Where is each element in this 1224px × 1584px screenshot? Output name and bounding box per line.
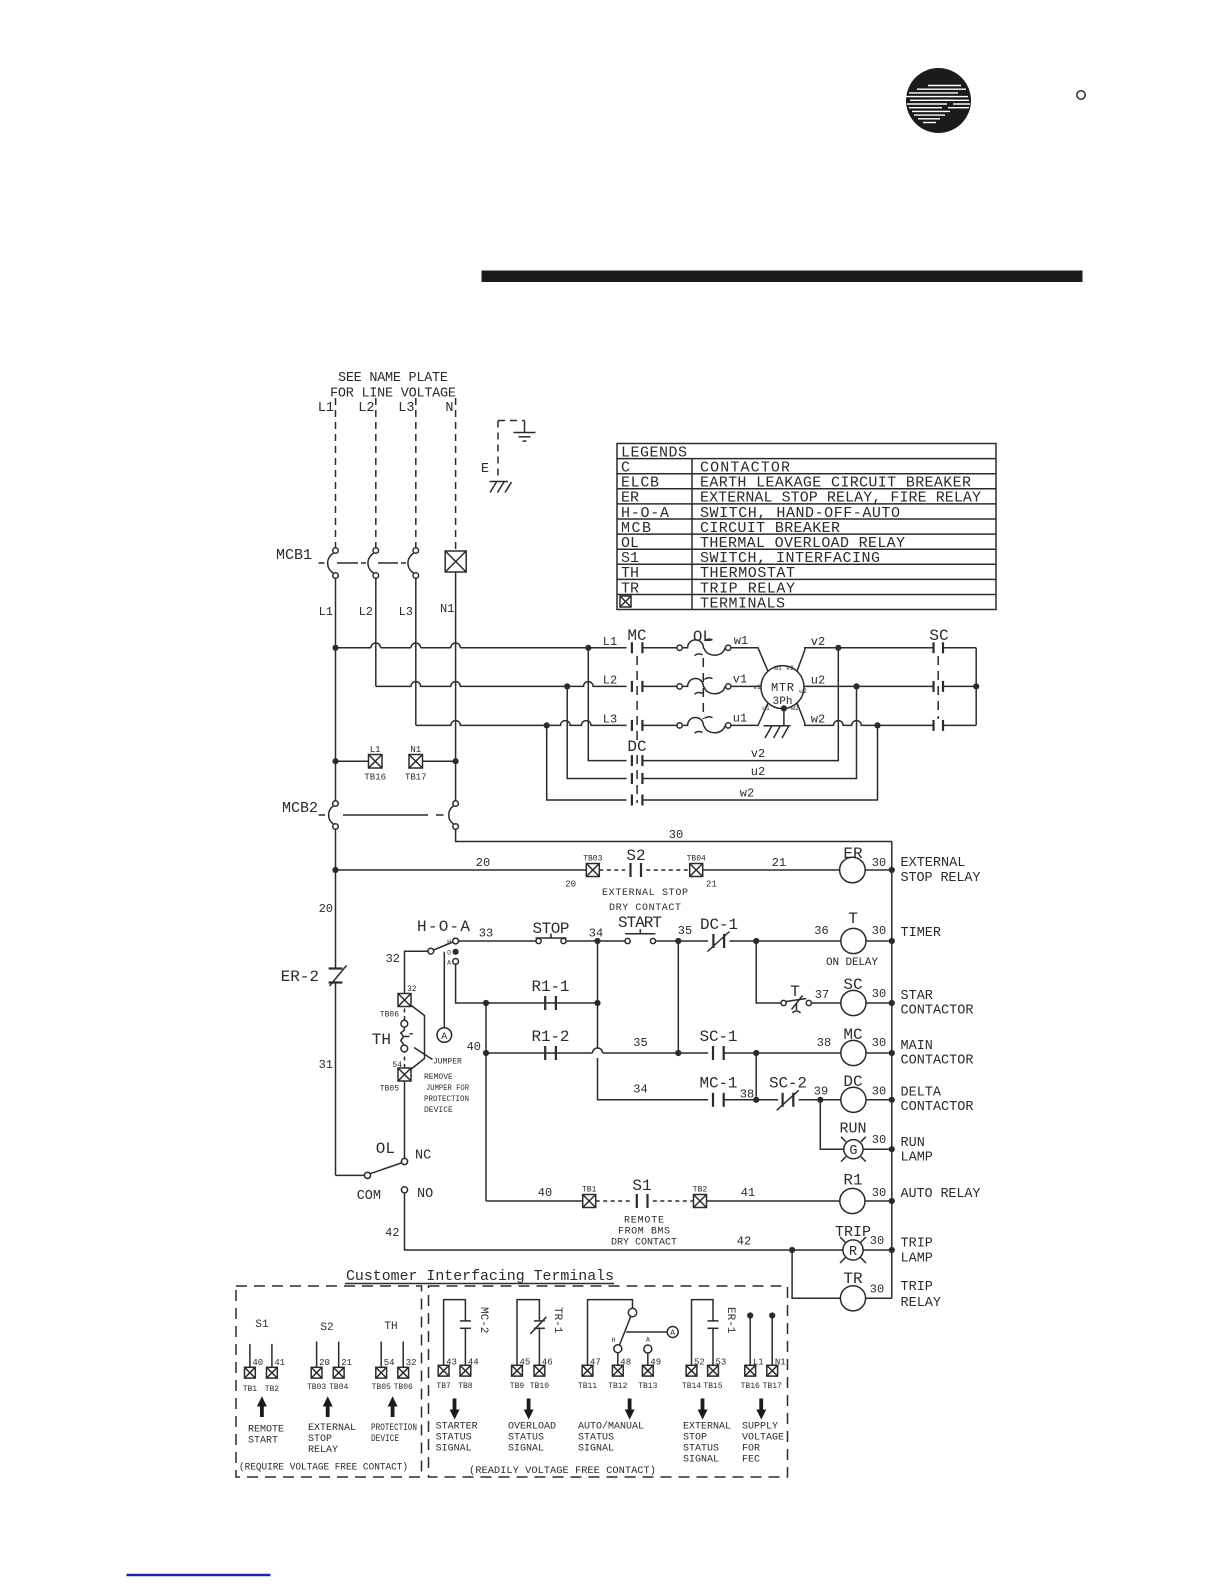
contactor SC mechanical tie (dashed) bbox=[937, 656, 939, 719]
junction L1 row start bbox=[332, 645, 338, 651]
svg-text:38: 38 bbox=[817, 1036, 831, 1050]
wire A position to rung R1-1 bbox=[456, 964, 486, 1003]
junction 40 bbox=[483, 1050, 489, 1056]
breaker MCB2 pole left bbox=[329, 801, 339, 830]
wire TR branch bbox=[792, 1250, 840, 1298]
contact R1-2 bbox=[545, 1046, 556, 1060]
wire N incoming (dashed) bbox=[455, 398, 457, 551]
wire TB05 to thermostat (dashed) bbox=[404, 1053, 406, 1069]
svg-text:v2: v2 bbox=[751, 747, 765, 761]
svg-text:TB10: TB10 bbox=[530, 1382, 549, 1391]
terminal TB2 (customer) bbox=[265, 1367, 280, 1394]
wire OL NO to trip rung 42 bbox=[405, 1193, 790, 1250]
contactor coil MC bbox=[841, 1040, 866, 1065]
svg-text:TR-1: TR-1 bbox=[551, 1307, 563, 1334]
wires S1 group bbox=[250, 1344, 272, 1367]
wire motor v2 to L1 row extension bbox=[797, 648, 933, 671]
junction 35 vertical/R1-2 bbox=[675, 1050, 681, 1056]
svg-text:AUTO RELAY: AUTO RELAY bbox=[901, 1187, 981, 1202]
lamp RUN (G) bbox=[841, 1137, 866, 1162]
svg-text:TB13: TB13 bbox=[638, 1382, 657, 1391]
svg-text:TRIP: TRIP bbox=[901, 1280, 933, 1295]
breaker MCB2 pole right bbox=[449, 801, 459, 830]
relay coil ER bbox=[840, 857, 866, 883]
svg-text:30: 30 bbox=[872, 987, 886, 1001]
svg-text:STOP: STOP bbox=[308, 1434, 332, 1445]
terminal TB11 bbox=[578, 1365, 597, 1391]
legends table column divider bbox=[691, 459, 693, 610]
switch S2 contact bbox=[631, 863, 642, 877]
arrow down (starter status) bbox=[450, 1399, 460, 1420]
svg-text:SC: SC bbox=[843, 976, 862, 994]
junction 20 tap bbox=[332, 867, 338, 873]
junction T rung tap bbox=[753, 938, 759, 944]
svg-text:L3: L3 bbox=[399, 605, 413, 619]
svg-text:E: E bbox=[481, 462, 489, 477]
wire ER rung 20 bbox=[336, 869, 587, 871]
junction L3/w2 tap bbox=[544, 722, 550, 728]
svg-text:54: 54 bbox=[392, 1061, 402, 1070]
svg-text:38: 38 bbox=[740, 1088, 754, 1102]
svg-text:R: R bbox=[849, 1245, 857, 1260]
svg-text:SIGNAL: SIGNAL bbox=[578, 1444, 614, 1455]
contact MC-1 bbox=[713, 1093, 724, 1107]
svg-text:TB1: TB1 bbox=[243, 1385, 258, 1394]
svg-text:STOP: STOP bbox=[683, 1433, 707, 1444]
wire vertical 35 (timer row to R1-2) bbox=[677, 941, 679, 1053]
svg-text:N1: N1 bbox=[440, 602, 454, 616]
breaker MCB2 mechanical tie bbox=[319, 814, 444, 816]
svg-text:CONTACTOR: CONTACTOR bbox=[901, 1054, 974, 1069]
terminal N1 fuse box bbox=[445, 551, 466, 572]
svg-text:TH: TH bbox=[384, 1321, 397, 1333]
svg-text:N1: N1 bbox=[410, 745, 421, 755]
contactor DC pole u2 bbox=[632, 773, 643, 784]
svg-text:41: 41 bbox=[741, 1186, 755, 1200]
wire START to DC-1 bbox=[656, 940, 709, 942]
terminal TB17 (customer) bbox=[763, 1365, 782, 1391]
timer coil T bbox=[841, 928, 866, 953]
junction supply L1 bbox=[747, 1312, 753, 1318]
svg-text:u2: u2 bbox=[811, 674, 825, 688]
svg-text:MCB2: MCB2 bbox=[282, 800, 318, 817]
overload relay OL mechanical tie (dashed) bbox=[702, 658, 704, 719]
wire L3 power row bbox=[416, 721, 627, 726]
svg-text:20: 20 bbox=[319, 1358, 330, 1368]
wire L2 power row bbox=[376, 682, 627, 687]
wire L2 vertical bbox=[375, 578, 377, 686]
switch H-O-A O terminal (engaged dot) bbox=[453, 949, 459, 955]
svg-text:SC-1: SC-1 bbox=[700, 1028, 738, 1046]
svg-text:LAMP: LAMP bbox=[901, 1151, 933, 1166]
wire S1 to TB2 (dashed) bbox=[653, 1200, 694, 1202]
svg-text:ER: ER bbox=[843, 845, 863, 863]
wires S2 group bbox=[317, 1342, 339, 1368]
svg-text:41: 41 bbox=[274, 1358, 285, 1368]
svg-text:TERMINALS: TERMINALS bbox=[700, 595, 785, 612]
svg-text:30: 30 bbox=[872, 1036, 886, 1050]
svg-text:H-O-A: H-O-A bbox=[417, 918, 470, 936]
switch H-O-A A terminal bbox=[453, 959, 459, 965]
wire motor w2 row to SC bbox=[797, 703, 933, 725]
svg-text:FOR LINE VOLTAGE: FOR LINE VOLTAGE bbox=[330, 387, 456, 402]
svg-text:SEE NAME PLATE: SEE NAME PLATE bbox=[338, 371, 448, 386]
terminal TB1 bbox=[582, 1186, 597, 1208]
terminal TB12 bbox=[608, 1365, 627, 1391]
wire N1 vertical bbox=[455, 572, 457, 801]
svg-text:32: 32 bbox=[386, 952, 400, 966]
terminal TB13 bbox=[638, 1365, 657, 1391]
wire MC to OL row L1 bbox=[642, 647, 676, 649]
wire TB04 to ER coil bbox=[703, 869, 840, 871]
svg-text:RELAY: RELAY bbox=[308, 1445, 338, 1456]
svg-text:S1: S1 bbox=[632, 1177, 651, 1195]
wire delta rung 34 bbox=[629, 1099, 709, 1101]
svg-text:S2: S2 bbox=[320, 1322, 333, 1334]
wire SC star point bbox=[943, 648, 976, 726]
junction ER/bus bbox=[889, 867, 895, 873]
svg-text:RUN: RUN bbox=[901, 1136, 925, 1151]
terminal TB16 (customer) bbox=[741, 1365, 760, 1391]
svg-text:20: 20 bbox=[319, 902, 333, 916]
contactor DC mechanical tie (dashed) bbox=[636, 755, 638, 803]
svg-text:L1: L1 bbox=[318, 401, 334, 416]
svg-text:TB7: TB7 bbox=[436, 1382, 451, 1391]
svg-text:COM: COM bbox=[357, 1189, 381, 1204]
wire MC coil to bus bbox=[866, 1052, 892, 1054]
wire SC coil to bus bbox=[866, 1002, 892, 1004]
svg-text:A: A bbox=[670, 1329, 675, 1338]
contact TR-1 (overload status, NC) bbox=[517, 1300, 546, 1366]
svg-text:MC-2: MC-2 bbox=[477, 1307, 489, 1333]
wire left control bus from MCB2 bbox=[335, 829, 337, 968]
svg-text:SC-2: SC-2 bbox=[769, 1075, 807, 1093]
svg-text:30: 30 bbox=[870, 1283, 884, 1297]
wire MC to OL row L3 bbox=[642, 724, 676, 726]
contact SC-1 bbox=[713, 1046, 724, 1060]
wire DC coil to bus bbox=[866, 1099, 892, 1101]
svg-text:OL: OL bbox=[376, 1140, 395, 1158]
svg-text:v1: v1 bbox=[753, 684, 761, 691]
svg-text:TB17: TB17 bbox=[763, 1382, 782, 1391]
svg-text:R1-2: R1-2 bbox=[532, 1028, 570, 1046]
junction u2 tap bbox=[853, 683, 859, 689]
wire RUN lamp to bus bbox=[863, 1148, 892, 1150]
contact MC-2 (starter status) bbox=[444, 1300, 471, 1366]
wire T coil to bus bbox=[866, 940, 892, 942]
svg-text:40: 40 bbox=[467, 1040, 481, 1054]
svg-text:LAMP: LAMP bbox=[901, 1252, 933, 1267]
arrow up (remote start) bbox=[257, 1396, 267, 1417]
wire TR coil to bus bbox=[866, 1297, 892, 1299]
svg-text:TB06: TB06 bbox=[380, 1011, 399, 1020]
junction T/bus bbox=[889, 938, 895, 944]
wire left bus 31 bbox=[335, 983, 337, 1176]
wire ER coil to bus bbox=[865, 869, 892, 871]
company logo globe bbox=[906, 68, 971, 133]
overload relay OL heater L2 bbox=[677, 678, 731, 694]
wire thermostat to TB06 (dashed) bbox=[404, 1006, 406, 1020]
svg-text:T: T bbox=[790, 983, 800, 1001]
svg-text:TB2: TB2 bbox=[693, 1186, 708, 1195]
svg-text:30: 30 bbox=[872, 1186, 886, 1200]
terminal TB10 bbox=[530, 1365, 549, 1391]
terminal TB15 bbox=[703, 1365, 722, 1391]
svg-text:R1-1: R1-1 bbox=[532, 978, 570, 996]
wire O position to ammeter A bbox=[443, 952, 445, 1028]
earth conductor EI (dashed drop) bbox=[497, 421, 499, 480]
svg-text:L3: L3 bbox=[398, 401, 414, 416]
svg-text:START: START bbox=[248, 1436, 278, 1447]
wire TB1 to S1 (dashed) bbox=[596, 1200, 632, 1202]
svg-text:ER-2: ER-2 bbox=[281, 968, 319, 986]
svg-text:MTR: MTR bbox=[771, 681, 794, 695]
lamp TRIP (R) bbox=[840, 1237, 866, 1263]
contactor coil SC bbox=[841, 990, 866, 1015]
svg-text:20: 20 bbox=[476, 856, 490, 870]
svg-text:30: 30 bbox=[872, 924, 886, 938]
breaker MCB1 pole L2 bbox=[368, 548, 379, 579]
wire S2 to TB04 (dashed) bbox=[646, 869, 689, 871]
terminal TB03 bbox=[565, 855, 602, 890]
svg-text:PROTECTION: PROTECTION bbox=[371, 1423, 417, 1434]
svg-text:TB16: TB16 bbox=[364, 773, 386, 783]
wire motor u2 row to SC bbox=[804, 685, 934, 687]
overload relay OL heater L1 bbox=[677, 639, 731, 655]
contact T (timed NC) bbox=[781, 996, 811, 1014]
svg-text:31: 31 bbox=[319, 1058, 333, 1072]
arrow up (external stop relay) bbox=[323, 1396, 333, 1417]
footer blue rule bbox=[127, 1574, 271, 1576]
wire T rung down to SC rung bbox=[756, 941, 781, 1003]
svg-text:H: H bbox=[612, 1337, 616, 1344]
junction w2 tap bbox=[874, 722, 880, 728]
wires supply voltage group bbox=[750, 1316, 772, 1366]
relay coil R1 bbox=[840, 1188, 865, 1213]
svg-text:LEGENDS: LEGENDS bbox=[621, 445, 687, 462]
contactor MC pole L2 bbox=[632, 681, 643, 692]
svg-text:34: 34 bbox=[589, 927, 603, 941]
wire RUN lamp branch bbox=[820, 1100, 844, 1149]
wire L3 vertical bbox=[415, 578, 417, 725]
legends table row lines bbox=[617, 459, 996, 595]
junction v2 tap bbox=[835, 645, 841, 651]
svg-text:TB2: TB2 bbox=[265, 1385, 280, 1394]
svg-text:32: 32 bbox=[406, 1358, 417, 1368]
junction supply N1 bbox=[769, 1312, 775, 1318]
svg-text:RUN: RUN bbox=[839, 1121, 866, 1138]
svg-text:TB03: TB03 bbox=[583, 855, 602, 864]
svg-text:ER-1: ER-1 bbox=[724, 1307, 736, 1334]
svg-text:DRY CONTACT: DRY CONTACT bbox=[609, 903, 681, 914]
contactor SC pole 1 bbox=[934, 642, 944, 653]
svg-text:A: A bbox=[447, 960, 451, 967]
svg-text:v2: v2 bbox=[786, 665, 794, 672]
svg-text:35: 35 bbox=[678, 924, 692, 938]
svg-text:DC-1: DC-1 bbox=[700, 916, 738, 934]
junction N1/TB17 bbox=[453, 758, 459, 764]
svg-text:REMOVE: REMOVE bbox=[424, 1073, 453, 1082]
svg-text:L2: L2 bbox=[358, 401, 374, 416]
junction DC/bus bbox=[889, 1097, 895, 1103]
svg-text:30: 30 bbox=[669, 828, 683, 842]
svg-text:TR: TR bbox=[843, 1270, 863, 1288]
svg-text:STATUS: STATUS bbox=[683, 1444, 719, 1455]
svg-text:STATUS: STATUS bbox=[578, 1433, 614, 1444]
legends table frame bbox=[617, 444, 996, 610]
wire timer rung from H bbox=[459, 940, 536, 942]
svg-text:(READILY VOLTAGE FREE CONTACT): (READILY VOLTAGE FREE CONTACT) bbox=[469, 1465, 656, 1477]
terminal TB04 bbox=[687, 855, 717, 890]
svg-text:u1: u1 bbox=[733, 712, 747, 726]
svg-text:TB1: TB1 bbox=[582, 1186, 597, 1195]
wire OL to motor v1 bbox=[731, 685, 761, 687]
wire rung R1-1 bbox=[486, 1002, 598, 1004]
svg-text:RELAY: RELAY bbox=[901, 1296, 942, 1311]
svg-text:34: 34 bbox=[633, 1083, 647, 1097]
terminal TB06 bbox=[380, 985, 417, 1020]
arrow down (auto/manual status) bbox=[625, 1399, 635, 1420]
junction MC/delta vertical bbox=[753, 1097, 759, 1103]
svg-text:w1: w1 bbox=[774, 665, 782, 672]
wire TB2 to R1 coil bbox=[707, 1200, 840, 1202]
arrow down (overload status) bbox=[524, 1399, 534, 1420]
svg-text:STOP: STOP bbox=[533, 920, 570, 938]
terminal TB04 (customer) bbox=[329, 1367, 348, 1392]
svg-text:DEVICE: DEVICE bbox=[371, 1434, 399, 1445]
wires TH group bbox=[381, 1342, 403, 1368]
svg-text:REMOTE: REMOTE bbox=[624, 1216, 664, 1227]
svg-text:36: 36 bbox=[814, 924, 828, 938]
svg-text:42: 42 bbox=[385, 1226, 399, 1240]
svg-text:40: 40 bbox=[252, 1358, 263, 1368]
svg-text:AUTO/MANUAL: AUTO/MANUAL bbox=[578, 1421, 644, 1433]
wire STOP to START bbox=[566, 940, 625, 942]
wire T contact to SC coil bbox=[811, 1002, 840, 1004]
pilot device A circle bbox=[437, 1028, 452, 1043]
breaker MCB1 mechanical tie (dashed) bbox=[319, 562, 325, 564]
wire SC-1 to MC coil bbox=[724, 1052, 841, 1054]
svg-text:TB9: TB9 bbox=[510, 1382, 525, 1391]
svg-text:30: 30 bbox=[872, 1133, 886, 1147]
arrow up (protection device) bbox=[388, 1396, 398, 1417]
svg-text:w2: w2 bbox=[740, 787, 754, 801]
wire 32 corner to H-O-A common bbox=[405, 951, 428, 994]
svg-text:A: A bbox=[646, 1337, 650, 1344]
svg-text:S1: S1 bbox=[255, 1319, 269, 1331]
svg-text:TB04: TB04 bbox=[329, 1383, 348, 1392]
wire L1 incoming (dashed) bbox=[335, 398, 337, 548]
terminal TB06 (customer) bbox=[394, 1367, 413, 1392]
wire L1 power row bbox=[336, 643, 627, 648]
motor MTR 3Ph bbox=[753, 665, 807, 712]
contact ER-1 (external stop status) bbox=[692, 1300, 719, 1366]
svg-text:42: 42 bbox=[737, 1235, 751, 1249]
wire OL to motor u1 bbox=[731, 703, 768, 725]
svg-text:S2: S2 bbox=[626, 847, 645, 865]
svg-text:STATUS: STATUS bbox=[436, 1433, 472, 1444]
pilot A circle (auto/manual) bbox=[667, 1327, 678, 1339]
svg-text:TB03: TB03 bbox=[307, 1383, 326, 1392]
svg-text:L1: L1 bbox=[319, 605, 333, 619]
svg-text:30: 30 bbox=[870, 1234, 884, 1248]
svg-text:DEVICE: DEVICE bbox=[424, 1106, 453, 1115]
contactor MC pole L1 bbox=[632, 642, 643, 653]
contactor SC pole 3 bbox=[934, 720, 944, 731]
svg-text:L2: L2 bbox=[359, 605, 373, 619]
junction R1-1 right bbox=[594, 1000, 600, 1006]
junction SC/bus bbox=[889, 1000, 895, 1006]
svg-text:H: H bbox=[447, 939, 451, 946]
terminal TB05 bbox=[380, 1061, 411, 1094]
svg-text:STATUS: STATUS bbox=[508, 1433, 544, 1444]
contactor coil DC bbox=[841, 1087, 866, 1112]
svg-text:MAIN: MAIN bbox=[901, 1039, 933, 1054]
pushbutton START (NO) bbox=[625, 929, 656, 943]
terminal TB14 bbox=[682, 1365, 701, 1391]
wire TRIP lamp wires bbox=[792, 1249, 892, 1251]
overload relay OL heater L3 bbox=[677, 717, 731, 733]
terminal TB9 bbox=[510, 1365, 525, 1391]
svg-text:TB15: TB15 bbox=[703, 1382, 722, 1391]
svg-text:JUMPER: JUMPER bbox=[433, 1058, 462, 1067]
svg-text:Customer Interfacing Terminals: Customer Interfacing Terminals bbox=[346, 1268, 614, 1285]
switch S1 contact bbox=[637, 1194, 648, 1208]
svg-text:33: 33 bbox=[479, 927, 493, 941]
svg-text:PROTECTION: PROTECTION bbox=[424, 1095, 469, 1104]
svg-text:EXTERNAL: EXTERNAL bbox=[308, 1423, 356, 1434]
wire v2 delta row bbox=[588, 648, 838, 761]
arrow down (external stop status) bbox=[698, 1399, 708, 1420]
svg-text:L2: L2 bbox=[603, 674, 617, 688]
switch H-A (auto/manual status) bbox=[588, 1300, 668, 1366]
switch H-O-A common pole bbox=[428, 948, 434, 954]
wire MC-1 to SC-2 bbox=[724, 1099, 778, 1101]
contactor DC pole v2 bbox=[632, 755, 643, 766]
jumper leader line bbox=[414, 1048, 433, 1060]
svg-text:v1: v1 bbox=[733, 673, 747, 687]
wire u2 delta row bbox=[567, 686, 856, 778]
svg-text:L3: L3 bbox=[603, 713, 617, 727]
breaker MCB1 pole L3 bbox=[408, 548, 419, 579]
wire vertical 34 (timer row to delta rung) bbox=[598, 941, 629, 1100]
svg-text:DRY CONTACT: DRY CONTACT bbox=[611, 1238, 677, 1249]
svg-text:MC: MC bbox=[627, 627, 646, 645]
svg-text:MCB1: MCB1 bbox=[276, 547, 312, 564]
svg-text:STAR: STAR bbox=[901, 989, 933, 1004]
svg-text:(REQUIRE VOLTAGE FREE CONTACT): (REQUIRE VOLTAGE FREE CONTACT) bbox=[239, 1462, 408, 1474]
svg-text:EXTERNAL: EXTERNAL bbox=[683, 1422, 731, 1433]
svg-text:CONTACTOR: CONTACTOR bbox=[901, 1004, 974, 1019]
svg-text:START: START bbox=[618, 914, 662, 932]
junction L1/v2 tap bbox=[585, 645, 591, 651]
svg-text:u2: u2 bbox=[799, 688, 807, 695]
switch H-O-A H terminal bbox=[453, 938, 459, 944]
wire SC-2 to DC coil bbox=[799, 1099, 841, 1101]
svg-text:TIMER: TIMER bbox=[901, 926, 942, 941]
terminal TB16 (L1) bbox=[336, 745, 387, 783]
terminal TB7 bbox=[436, 1365, 451, 1391]
svg-text:SIGNAL: SIGNAL bbox=[508, 1444, 544, 1455]
wire MC to OL row L2 bbox=[642, 685, 676, 687]
junction TRIP tap bbox=[789, 1247, 795, 1253]
contactor MC pole L3 bbox=[632, 720, 643, 731]
junction 34 tap bbox=[594, 938, 600, 944]
wire right bus 30 bbox=[891, 842, 893, 1299]
svg-text:FROM BMS: FROM BMS bbox=[618, 1227, 670, 1238]
junction R1/bus bbox=[889, 1198, 895, 1204]
svg-text:FEC: FEC bbox=[742, 1455, 760, 1466]
